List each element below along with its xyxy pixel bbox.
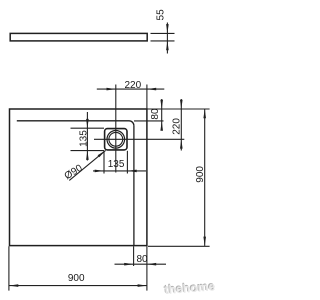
dimension 900 bottom line — [9, 285, 147, 287]
extension line bar bottom — [151, 40, 175, 42]
dimension 900 right bottom arrow — [203, 237, 206, 246]
extension bottom edge right — [148, 245, 210, 247]
dimension 135 horizontal right arrow — [127, 170, 136, 173]
drain inner circle — [109, 132, 123, 146]
extension bottom-left down — [8, 246, 10, 290]
inner right edge line — [133, 126, 135, 246]
side view bar — [10, 33, 147, 41]
dimension 80 bottom left arrow — [124, 263, 133, 266]
dimension 135 vertical top arrow — [86, 119, 89, 128]
dimension 80 bottom right arrow — [147, 263, 156, 266]
extension drain bottom left — [71, 150, 105, 152]
dimension 220 top line — [97, 88, 165, 90]
dimension 220 right line — [180, 99, 182, 151]
dimension 55 arrow down — [166, 24, 169, 33]
drain outer circle — [107, 131, 125, 149]
dimension 220 top right arrow — [147, 88, 156, 91]
dimension 900 right line — [204, 109, 206, 246]
dimension 135 horizontal line — [93, 170, 146, 172]
dimension 220 right top arrow — [180, 100, 183, 109]
drain square — [105, 129, 127, 150]
dimension 135 vertical line — [86, 112, 88, 161]
extension inner edge down — [133, 246, 135, 266]
drain vertical centerline — [115, 85, 117, 173]
outer square (plan view 900x900) — [10, 109, 147, 246]
dimension 220 right bottom arrow — [180, 139, 183, 148]
svg-text:55: 55 — [155, 9, 166, 21]
dimension 900 right top arrow — [203, 109, 206, 118]
drain horizontal centerline — [94, 138, 184, 140]
svg-text:80: 80 — [150, 108, 161, 120]
extension inner line right — [134, 120, 164, 122]
dimension 80 bottom line — [115, 263, 167, 265]
inner top edge line — [17, 120, 129, 122]
dimension 80 right line — [161, 99, 163, 130]
dimension 220 top left arrow — [107, 88, 116, 91]
svg-text:900: 900 — [195, 166, 206, 183]
extension top edge right — [148, 108, 210, 110]
leader arrow — [98, 150, 106, 157]
svg-text:220: 220 — [125, 80, 142, 91]
svg-text:900: 900 — [68, 273, 85, 284]
svg-text:thehome: thehome — [164, 279, 216, 297]
extension bottom-right down — [146, 246, 148, 290]
svg-text:220: 220 — [171, 118, 182, 135]
extension drain right down — [126, 151, 128, 174]
svg-text:135: 135 — [79, 130, 90, 147]
extension drain top left — [71, 127, 105, 129]
dimension 135 vertical bottom arrow — [86, 151, 89, 160]
dimension 80 right bottom arrow — [160, 121, 163, 130]
extension top-right corner up — [146, 85, 148, 109]
leader line diameter 90 — [69, 150, 105, 180]
dimension 900 bottom left arrow — [9, 284, 18, 287]
extension drain left down — [103, 151, 105, 174]
svg-text:80: 80 — [136, 254, 148, 265]
dimension 55 arrow up — [166, 41, 169, 50]
dimension 135 horizontal left arrow — [95, 170, 104, 173]
svg-text:135: 135 — [108, 159, 125, 170]
dimension 55 line — [166, 23, 168, 54]
dimension 900 bottom right arrow — [138, 284, 147, 287]
dimension 80 right top arrow — [160, 100, 163, 109]
extension line bar top — [151, 32, 175, 34]
inner corner arc — [129, 121, 134, 126]
